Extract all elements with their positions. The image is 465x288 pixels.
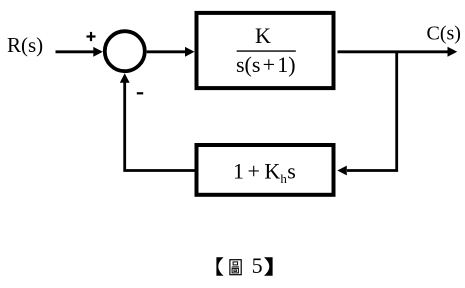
svg-text:R(s): R(s): [7, 33, 43, 57]
fraction bar: [237, 50, 296, 52]
svg-text:5: 5: [252, 253, 263, 278]
plus sign: [87, 32, 96, 41]
wire R(s) to summing junction: [56, 50, 95, 53]
caption right lenticular bracket: [264, 257, 273, 276]
arrowhead up into summing junction: [120, 73, 130, 83]
arrowhead into forward block: [185, 47, 195, 57]
minus sign: [137, 92, 143, 94]
arrowhead into feedback block: [337, 166, 347, 176]
wire forward block to output C(s): [338, 50, 449, 53]
output arrowhead: [448, 47, 458, 57]
caption glyph 圖 (figure): [230, 260, 241, 275]
feedback block H: 1+Khs: [197, 145, 334, 195]
forward block G: K/s(s+1): [197, 13, 334, 88]
svg-text:C(s): C(s): [427, 22, 461, 44]
summing junction: [105, 31, 145, 71]
wire branch from output down and left to feedback block: [347, 52, 397, 171]
svg-text:1+Khs: 1+Khs: [233, 158, 296, 186]
arrowhead into summing junction: [93, 47, 103, 57]
wire feedback block left and up to summing junction: [125, 82, 197, 171]
svg-text:K: K: [255, 23, 271, 48]
caption left lenticular bracket: [216, 257, 223, 276]
wire summing junction to forward block: [147, 50, 187, 53]
svg-text:s(s+1): s(s+1): [236, 52, 296, 77]
